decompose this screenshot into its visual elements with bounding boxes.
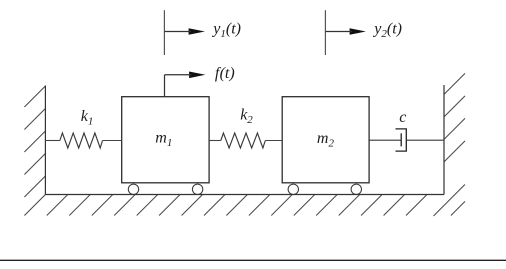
svg-text:(t): (t) — [220, 65, 235, 82]
svg-text:c: c — [399, 109, 406, 126]
svg-text:y1(t): y1(t) — [211, 21, 241, 41]
svg-text:y2(t): y2(t) — [372, 21, 402, 41]
